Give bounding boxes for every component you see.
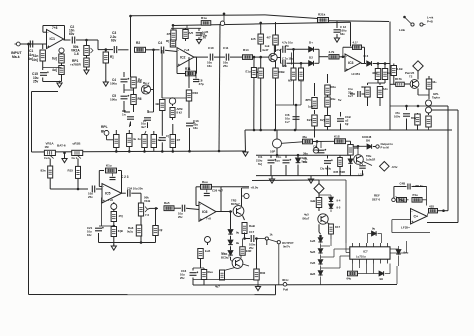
resistor 43+: [418, 76, 437, 95]
svg-text:43S: 43S: [429, 205, 434, 209]
resistor R23: [372, 64, 381, 80]
svg-text:R3u: R3u: [411, 116, 417, 120]
svg-text:RPL: RPL: [101, 125, 108, 129]
svg-text:P to M: P to M: [381, 146, 390, 150]
diode chain 4: [310, 271, 323, 285]
capacitor C21: [87, 226, 104, 243]
pot VR2A: [71, 40, 93, 56]
resistor R?: [103, 48, 113, 63]
wire caps to diodes: [287, 48, 309, 65]
ground VR1 mid: [62, 152, 67, 163]
diamond heat T2: [405, 61, 423, 79]
diode D4: [228, 212, 239, 240]
wire ic5 bias node: [99, 198, 115, 228]
resistor R ic6: [193, 268, 213, 285]
capacitor C15: [32, 61, 49, 84]
wire IC3 out: [361, 54, 369, 64]
wire top supply rail A: [131, 15, 390, 22]
svg-text:Ruu: Ruu: [202, 180, 208, 184]
svg-text:+8.5v: +8.5v: [251, 186, 259, 190]
svg-text:R2u: R2u: [331, 85, 337, 89]
svg-text:7-6: 7-6: [145, 213, 149, 217]
resistor R32: [346, 141, 360, 155]
svg-text:B0u7: B0u7: [303, 217, 310, 221]
capacitor C18: [337, 112, 351, 130]
svg-text:D6: D6: [366, 139, 370, 143]
capacitor C26: [204, 189, 224, 196]
svg-text:25v: 25v: [223, 64, 228, 68]
resistor R4b: [52, 63, 64, 82]
svg-text:Ma-k: Ma-k: [12, 55, 20, 59]
resistor R38: [427, 205, 448, 217]
wire block4 left branch: [32, 92, 59, 153]
diode D5a: [228, 240, 239, 250]
svg-text:10u: 10u: [180, 273, 185, 277]
pot VR1B: [72, 142, 83, 160]
wire IC8 plus input: [392, 220, 430, 233]
svg-text:4/7: 4/7: [267, 36, 272, 40]
op-amp IC3: [345, 54, 361, 76]
resistor R19c: [276, 63, 305, 130]
svg-text:APB: APB: [177, 107, 183, 111]
label REF SET: [372, 194, 381, 202]
svg-text:Output to: Output to: [381, 142, 394, 146]
svg-text:R14: R14: [243, 48, 249, 52]
svg-text:LF35=: LF35=: [401, 226, 410, 230]
svg-text:9u: 9u: [236, 241, 240, 245]
capacitor C4 100u: [110, 72, 129, 86]
capacitor C13b gnd: [334, 21, 347, 42]
svg-text:Ruu: Ruu: [208, 270, 214, 274]
svg-text:45]: 45]: [119, 214, 123, 218]
svg-text:R11: R11: [185, 67, 191, 71]
svg-text:T 26: T 26: [200, 36, 206, 40]
resistor R25: [306, 83, 318, 109]
svg-text:4n]: 4n]: [33, 58, 38, 62]
capacitor C43: [359, 164, 366, 177]
resistor R fb6: [201, 180, 212, 189]
wire bias mid: [124, 84, 134, 94]
svg-text:R10: R10: [193, 91, 199, 95]
resistor R11: [185, 67, 196, 76]
ground bias chain: [57, 81, 62, 87]
svg-text:C11: C11: [223, 46, 229, 50]
resistor R?B ic5: [111, 227, 123, 243]
svg-text:6v]: 6v]: [258, 162, 262, 166]
resistor Ru7: [215, 268, 235, 289]
IC7 bottom pins: [353, 259, 388, 263]
pad 10P: [270, 130, 282, 155]
transistor TR3: [231, 199, 244, 217]
label C u00u: [313, 145, 319, 152]
resistor 41B: [391, 64, 402, 85]
svg-text:4u]: 4u]: [52, 68, 57, 72]
svg-text:Cu b: Cu b: [72, 156, 78, 160]
ground block5: [269, 176, 274, 184]
wire C6 to r2: [129, 122, 130, 128]
wire reg chain: [319, 224, 322, 237]
svg-text:BC5u7: BC5u7: [231, 202, 240, 206]
svg-text:K17: K17: [335, 225, 341, 229]
wire +8.5v: [221, 186, 259, 190]
resistor Ru5: [164, 201, 174, 211]
wire R2 to C4: [146, 49, 160, 52]
svg-text:0u1u: 0u1u: [127, 230, 134, 234]
svg-text:6/5: 6/5: [288, 79, 292, 83]
svg-text:D 3: D 3: [364, 54, 369, 58]
capacitor C33: [256, 155, 276, 176]
svg-text:8P5: 8P5: [306, 98, 312, 102]
svg-text:V0.B: V0.B: [144, 199, 150, 203]
block4 rail ground: [243, 130, 248, 156]
transistor TR6: [354, 154, 376, 164]
diode D8: [348, 155, 352, 175]
junction dots rail: [259, 129, 296, 132]
wire ic5 bottom: [99, 241, 156, 244]
resistor R19b: [288, 49, 296, 105]
svg-text:uR1B: uR1B: [73, 142, 82, 146]
wire R20 to IC3: [339, 47, 345, 58]
resistor RP1: [70, 56, 89, 68]
svg-text:INPUT: INPUT: [11, 51, 22, 55]
label RPL BUT: [101, 125, 108, 134]
svg-text:Cu b: Cu b: [44, 156, 50, 160]
svg-text:210u: 210u: [256, 159, 263, 163]
svg-text:Pu9: Pu9: [283, 288, 289, 292]
svg-text:R1B: R1B: [279, 70, 286, 74]
wire col260 drop: [260, 24, 262, 34]
wire bottom ground rail: [29, 294, 276, 296]
resistor R13 railB: [201, 16, 211, 25]
wire bottom rail jog: [193, 285, 397, 295]
resistor Eu5: [198, 249, 211, 269]
offset pad IC1: [59, 48, 64, 54]
resistor R30 out: [254, 239, 266, 281]
pad TR3 top: [242, 193, 250, 198]
svg-text:E1u: E1u: [246, 70, 251, 74]
wire bias bottom2: [124, 101, 134, 112]
wire D3 node: [373, 62, 390, 65]
wire IC5 feedback: [99, 171, 121, 194]
svg-text:40u: 40u: [361, 85, 366, 89]
svg-text:E]L: E]L: [304, 157, 309, 161]
svg-text:63v: 63v: [111, 39, 116, 43]
capacitor C4b: [158, 41, 164, 54]
resistor row r1: [114, 130, 119, 152]
svg-text:K21: K21: [307, 118, 313, 122]
resistor R5: [131, 77, 142, 88]
capacitor C2: [69, 25, 75, 44]
resistor 45u ic5: [111, 212, 123, 227]
diamond reg: [314, 180, 324, 197]
label ENL: [303, 157, 308, 165]
svg-text:SET-0: SET-0: [372, 198, 381, 202]
svg-text:C+: C+: [414, 214, 419, 218]
svg-text:9uB: 9uB: [310, 272, 315, 276]
svg-text:Taylor: Taylor: [432, 96, 441, 100]
resistor K1u fb: [106, 164, 117, 173]
svg-text:4uB: 4uB: [310, 199, 315, 203]
svg-text:1u0uu: 1u0uu: [308, 105, 316, 109]
wire IC1 feedback loop: [43, 26, 65, 41]
diode Drb: [319, 195, 341, 215]
wire volts rail: [394, 187, 407, 200]
capacitor C11: [223, 46, 229, 68]
wire right loop lower: [427, 110, 458, 223]
svg-text:1u?: 1u?: [348, 94, 353, 98]
svg-text:Rx: Rx: [138, 78, 142, 82]
resistor R4a: [52, 54, 64, 63]
resistor P4u: [412, 193, 422, 202]
svg-text:Eu5: Eu5: [205, 249, 211, 253]
wire rail2 drop: [353, 145, 367, 155]
switch LINK: [399, 16, 426, 32]
wire reg top right: [252, 180, 350, 253]
wire rail B right drop: [350, 22, 352, 46]
svg-text:0R-H: 0R-H: [282, 278, 288, 282]
wire cluster top: [368, 82, 381, 84]
svg-text:1u0u1R: 1u0u1R: [366, 158, 375, 162]
svg-text:IC6: IC6: [202, 210, 208, 214]
svg-text:100u: 100u: [110, 82, 117, 86]
svg-text:25v: 25v: [88, 195, 93, 199]
resistor R23b: [361, 83, 370, 106]
svg-text:1M: 1M: [45, 145, 50, 149]
label IC2 7+8: [184, 48, 189, 52]
resistor E4R: [240, 239, 252, 256]
svg-text:9-4: 9-4: [337, 199, 341, 203]
svg-text:BAT-6: BAT-6: [57, 143, 66, 147]
svg-text:16v: 16v: [193, 126, 198, 130]
svg-text:R]: R]: [166, 39, 169, 43]
svg-text:4]r: 4]r: [159, 228, 164, 232]
capacitor C48: [400, 182, 427, 200]
wire gpl join: [390, 105, 429, 108]
svg-text:C/u 4u0u: C/u 4u0u: [320, 167, 332, 171]
svg-text:1-6: 1-6: [74, 52, 79, 56]
svg-text:25r: 25r: [285, 44, 289, 48]
resistor R28: [325, 95, 342, 107]
wire TR4 out: [243, 264, 250, 266]
svg-text:C26 4u7: C26 4u7: [212, 189, 223, 193]
svg-text:4.1*: 4.1*: [353, 41, 359, 45]
pad mid6: [205, 237, 211, 246]
label +VOLTS: [413, 184, 423, 188]
svg-text:39u: 39u: [303, 152, 308, 156]
capacitor C13 33u: [186, 119, 199, 151]
resistor R24: [382, 64, 392, 80]
svg-text:10k: 10k: [303, 160, 308, 164]
svg-text:1uu: 1uu: [275, 159, 280, 163]
capacitor C31: [275, 155, 291, 176]
diode chain 2: [310, 249, 323, 259]
capacitor 47n: [394, 106, 410, 130]
wire mid bias: [43, 67, 62, 69]
wire IC7 bottom bus: [360, 256, 399, 285]
capacitor GPL: [426, 89, 441, 113]
svg-text:OUTPUT: OUTPUT: [282, 241, 294, 245]
svg-text:1uB: 1uB: [310, 239, 315, 243]
svg-text:BC5u7: BC5u7: [221, 256, 230, 260]
label INPUT: [11, 51, 22, 59]
capacitor C?a: [282, 41, 293, 53]
svg-text:10u: 10u: [285, 117, 290, 121]
resistor R below VR1B: [68, 159, 81, 179]
resistor R36: [310, 198, 322, 212]
wire TR1 out paths: [277, 49, 281, 63]
svg-text:1k: 1k: [270, 233, 274, 237]
svg-text:1N4148: 1N4148: [362, 135, 372, 139]
svg-text:7+8: 7+8: [52, 26, 58, 30]
wire left ground rail: [28, 44, 30, 295]
svg-text:10u: 10u: [87, 230, 92, 234]
svg-text:4u: 4u: [133, 137, 137, 141]
diode D2: [309, 56, 314, 66]
point B terminal: [376, 142, 393, 150]
resistor GPL2: [426, 113, 431, 130]
wire VR1B down: [77, 178, 79, 189]
capacitor C8 fb: [193, 74, 204, 86]
resistor R16: [252, 57, 263, 130]
resistor R29: [320, 107, 330, 130]
bias cap col3: [196, 28, 209, 37]
resistor R26: [307, 110, 317, 138]
svg-text:Ru6: Ru6: [128, 226, 134, 230]
svg-text:C17: C17: [249, 230, 255, 234]
svg-text:100v: 100v: [394, 115, 401, 119]
capacitor C24: [127, 187, 143, 197]
svg-text:P4u: P4u: [413, 193, 418, 197]
capacitor C20: [88, 186, 102, 200]
diode D1: [309, 41, 314, 52]
wire C11-R14: [230, 56, 242, 58]
offset pad IC5: [111, 202, 117, 211]
svg-text:47p: 47p: [199, 82, 204, 86]
ground RP1: [84, 67, 89, 74]
wire TR3 to C17: [243, 233, 250, 240]
wire VR3 wiper: [148, 207, 159, 210]
svg-text:C4B: C4B: [400, 182, 406, 186]
transistor T2: [410, 71, 419, 88]
wire IC8 out: [422, 200, 427, 206]
resistor R26b: [127, 225, 142, 236]
transistor TR7: [138, 78, 154, 95]
resistor R35b: [334, 155, 346, 175]
pot VR1A: [44, 142, 55, 160]
pad 39u: [303, 141, 319, 155]
resistor R37: [327, 223, 341, 240]
svg-text:GPL: GPL: [433, 92, 439, 96]
wire right vertical from rail A: [389, 22, 391, 131]
switch OUTPUT: [255, 233, 280, 244]
wire IC2 out: [194, 56, 208, 58]
svg-text:9=u: 9=u: [404, 251, 409, 255]
wire rail A left drop: [130, 16, 132, 77]
capacitor C16: [180, 269, 198, 285]
svg-text:4Ru: 4Ru: [372, 71, 378, 75]
diode chain 3: [310, 260, 323, 270]
svg-text:25v: 25v: [33, 80, 38, 84]
svg-text:Lu710u: Lu710u: [356, 255, 366, 259]
label BAL-6: [57, 143, 66, 147]
svg-text:7+8: 7+8: [108, 198, 113, 202]
svg-text:25v: 25v: [180, 276, 185, 280]
capacitor C1: [28, 41, 34, 62]
resistor row r3b: [151, 131, 161, 152]
diode Dra: [329, 195, 341, 203]
resistor R21 railA: [318, 13, 329, 23]
wire block4 bottom rail: [32, 151, 246, 152]
svg-text:C24 10u 25v: C24 10u 25v: [127, 187, 143, 191]
svg-text:C]: C]: [166, 134, 169, 138]
svg-text:4B: 4B: [155, 102, 160, 106]
resistor 45u: [282, 135, 335, 144]
resistor R10: [186, 57, 198, 118]
svg-text:C21: C21: [87, 226, 93, 230]
resistor R20: [329, 50, 340, 59]
capacitor C10: [207, 46, 214, 68]
svg-text:16v: 16v: [87, 233, 92, 237]
capacitor C9: [159, 134, 169, 152]
svg-text:K2]: K2]: [320, 118, 325, 122]
wire diode join: [315, 49, 329, 63]
wire C3 to R2: [118, 49, 129, 51]
capacitor C3: [110, 31, 117, 53]
svg-text:A/5: A/5: [189, 31, 194, 35]
svg-text:R6: R6: [138, 97, 142, 101]
svg-text:100n: 100n: [249, 243, 256, 247]
svg-text:83n: 83n: [41, 169, 46, 173]
svg-text:C1L: C1L: [276, 155, 282, 159]
svg-text:E4R: E4R: [246, 249, 251, 253]
wire IC2out to C10: [207, 56, 209, 58]
svg-text:1n: 1n: [122, 113, 126, 117]
svg-text:9u: 9u: [236, 231, 240, 235]
svg-text:A3n: A3n: [383, 87, 389, 91]
svg-text:T2: T2: [409, 75, 413, 79]
svg-text:TR4: TR4: [222, 252, 228, 256]
wire IC2 feedback: [177, 57, 197, 73]
resistor R15: [251, 34, 263, 52]
wire chain taps: [321, 239, 335, 268]
wire IC1 inv stub: [43, 31, 47, 33]
wire right loop upper: [429, 106, 448, 211]
svg-text:R21k: R21k: [318, 13, 326, 17]
wire IC6 feedback: [196, 187, 221, 212]
svg-text:IC5: IC5: [105, 191, 111, 195]
svg-text:63v: 63v: [69, 32, 74, 36]
svg-text:P=B: P=B: [427, 20, 433, 24]
resistor APB 8k2: [162, 98, 189, 115]
capacitor C41: [318, 141, 327, 152]
svg-text:+a78SR: +a78SR: [70, 63, 82, 67]
op-amp IC5: [102, 184, 122, 204]
resistor R18: [273, 61, 286, 130]
svg-text:45u: 45u: [302, 135, 307, 139]
svg-text:4/5: 4/5: [167, 32, 172, 36]
wire IC1 output: [64, 39, 71, 41]
wire IC7 right: [390, 241, 407, 253]
svg-text:R2: R2: [136, 41, 140, 45]
transistor TR5r: [303, 213, 329, 225]
resistor R24b: [377, 83, 388, 106]
wire block5 bottom wire: [256, 175, 363, 177]
svg-text:-0.5v: -0.5v: [391, 165, 398, 169]
svg-text:C7: C7: [143, 119, 147, 123]
IC7 DIP: [350, 247, 390, 259]
op-amp IC8: [401, 209, 427, 230]
svg-text:4/7: 4/7: [177, 138, 181, 142]
